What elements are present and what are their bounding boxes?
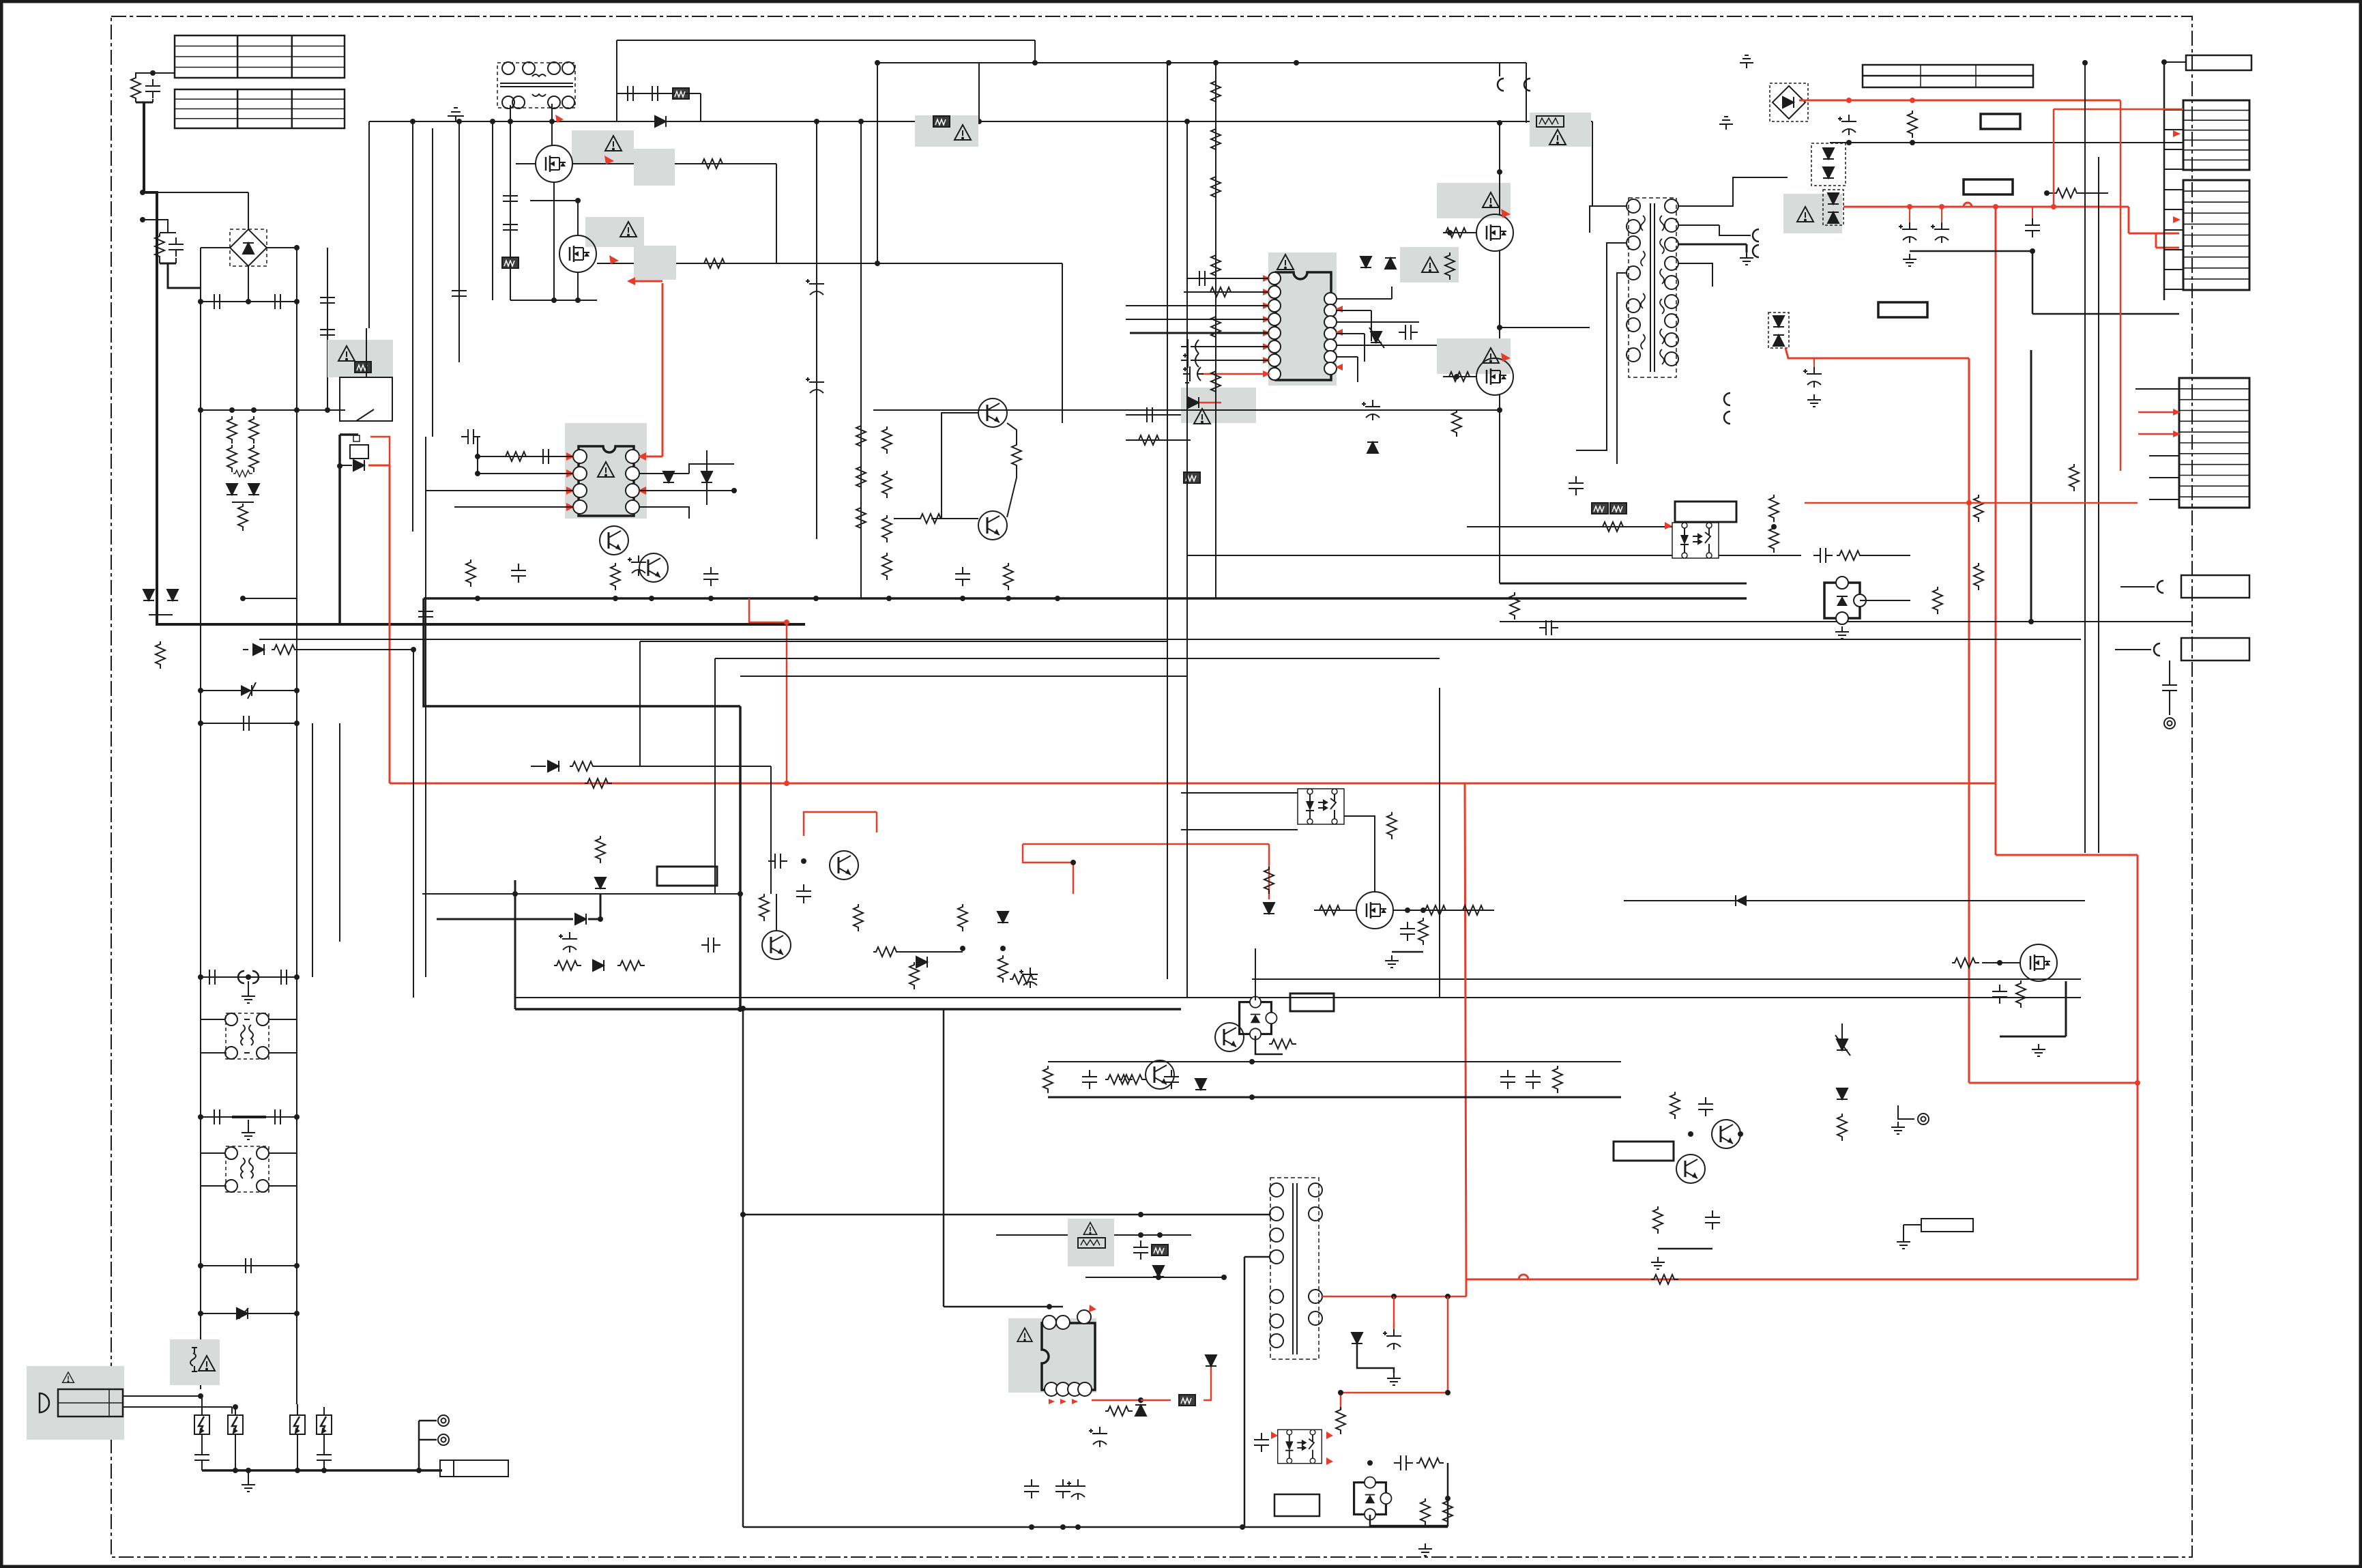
opto PC6001 — [1278, 1429, 1322, 1463]
aux fet red — [1023, 843, 1269, 845]
IC3 warnbox res — [1068, 1219, 1114, 1266]
MOSFET Q6601 — [1476, 214, 1513, 251]
feedback divider ladder — [860, 409, 862, 598]
ic3 small res diode — [1091, 1400, 1092, 1406]
T6001 sec red — [1322, 1296, 1466, 1298]
dual diode D6606 — [1768, 313, 1789, 348]
q3 link line — [422, 893, 740, 895]
standby transformer T6001 — [1270, 1178, 1319, 1359]
relay red stub — [370, 437, 390, 465]
aux bridge gnd caps — [1740, 55, 1753, 68]
warnbox Q6602 — [1437, 338, 1511, 374]
X-cap row — [201, 301, 297, 302]
IC1 red gate link — [635, 280, 662, 282]
sec ground buses — [1252, 978, 2081, 980]
red feedback tap — [749, 598, 787, 783]
main transformer T6601 — [1629, 198, 1676, 377]
bulk rail 634 — [432, 128, 433, 437]
Q6601 drain — [1499, 123, 1500, 214]
relay RY6001 — [340, 377, 392, 421]
lower-left zeners — [231, 410, 233, 484]
IC1 left rail — [477, 437, 478, 474]
npn at snubber2 — [1146, 1060, 1174, 1089]
gate link vert — [776, 164, 777, 263]
aux red tall — [1995, 207, 1997, 855]
long run E — [1592, 82, 1593, 121]
connector CN6093 — [2179, 378, 2249, 508]
bottom buses — [514, 998, 516, 1009]
connector CN6090 — [2183, 100, 2249, 170]
IC2 pins — [1268, 272, 1281, 285]
bulk rail 722 — [492, 121, 493, 300]
mid npn cluster — [1614, 1142, 1674, 1161]
bulk cap rail 1197 — [816, 121, 817, 539]
inlet wires — [123, 1395, 201, 1397]
sec snubber row — [1048, 1061, 1621, 1062]
Q6601 gate path — [1443, 232, 1476, 233]
gate zeners — [1360, 257, 1371, 267]
IC3 body — [1042, 1323, 1095, 1390]
opto out wires — [1313, 1393, 1315, 1432]
primary bus 2 — [424, 598, 740, 706]
note table 1 / table 2 — [175, 35, 345, 78]
Q6601 source — [1499, 251, 1500, 382]
bulk rail 673 — [458, 121, 460, 362]
Q6201 drain stub — [551, 121, 553, 145]
v out filter — [1899, 222, 1917, 243]
spark gap row — [194, 1415, 209, 1434]
gate resistor Q6202 — [597, 263, 1062, 264]
center npn A — [762, 931, 791, 959]
q3 diode chain — [437, 918, 573, 920]
bus res caps — [511, 564, 526, 583]
IC2 highlight — [1268, 252, 1337, 386]
reg npn1 — [830, 851, 858, 880]
right res v — [2069, 464, 2079, 491]
br fet — [2020, 944, 2057, 981]
across-line capacitor — [201, 1265, 297, 1266]
IC2 left wiring — [1187, 278, 1268, 279]
ic3 diode — [1153, 1266, 1164, 1277]
dual diode D6604 — [1811, 143, 1846, 186]
bulk rail 1262 — [860, 121, 862, 532]
aux fet — [1356, 892, 1393, 929]
IC2 left extra — [1126, 414, 1191, 416]
ic2 diode low — [1367, 442, 1378, 453]
IC1 bjt — [600, 526, 628, 555]
sec top wires — [1678, 177, 1788, 206]
label box bl — [1274, 1494, 1319, 1516]
aux gnd bus — [1830, 142, 2183, 143]
thick rail from pair A — [144, 102, 805, 624]
center vertical B — [1186, 121, 1188, 998]
center cluster res — [958, 904, 967, 931]
degauss thermistor highlight — [327, 340, 393, 377]
lower-left zener2 — [201, 690, 297, 691]
Q6602 source — [1499, 395, 1500, 583]
standby red out — [1466, 1279, 1468, 1296]
doubler caps — [327, 248, 328, 410]
br ring lug — [1898, 1105, 1914, 1119]
left mid columns — [425, 437, 426, 977]
resistor-capacitor pair A — [136, 73, 153, 76]
D6604 wiring — [1828, 123, 1829, 149]
T6001 sec diode — [1352, 1333, 1362, 1344]
IC1 zener pair — [663, 471, 674, 482]
ring terminals — [419, 1420, 437, 1422]
sec fuse pair2 — [1719, 382, 1720, 396]
IC3 wiring top — [944, 1306, 1063, 1308]
right verticals — [2084, 63, 2086, 853]
warnbox D6605 — [1783, 194, 1842, 233]
protective earth bus — [202, 1469, 442, 1472]
opto PC6002 — [1672, 523, 1719, 558]
br zeners — [1841, 1023, 1843, 1039]
bus2 to ic3 — [515, 1008, 1181, 1011]
warn box mid — [585, 217, 644, 247]
red conn wires — [2053, 109, 2055, 207]
q3 bold vert — [514, 880, 516, 1009]
IC1 left wiring — [478, 456, 573, 457]
line filter transformer LF2 — [226, 1146, 269, 1192]
hb left rail — [510, 105, 511, 300]
zener mid — [1371, 332, 1382, 343]
IC1 top cap — [477, 423, 478, 434]
node mid wire — [1500, 327, 1590, 328]
D6606 wiring — [1778, 259, 1779, 313]
relay feed diode — [340, 465, 352, 466]
warn box Q6201 — [572, 130, 634, 164]
ic3 feed vert — [1191, 1235, 1255, 1341]
trunk warn resistor 1 — [915, 115, 978, 147]
bleeder chain — [1215, 63, 1216, 598]
IC2 right wiring — [1337, 298, 1392, 300]
reg caps — [796, 884, 811, 903]
br line diode — [1624, 900, 2085, 901]
driver npn pair — [978, 398, 1007, 427]
IC1 bjt2 — [639, 553, 668, 582]
staircase right — [1439, 658, 1440, 688]
q3 col 606 — [413, 650, 414, 998]
aux top table — [1863, 65, 2033, 87]
bulk rail 605 — [412, 121, 413, 532]
snubber caps hb — [1575, 450, 1577, 478]
trunk diode — [655, 116, 666, 127]
line filter transformer LF1 — [226, 1013, 269, 1059]
label box r1 — [1675, 502, 1736, 522]
opto feed res — [1467, 526, 1672, 527]
lower-left feeder — [201, 409, 345, 411]
center red jog — [1023, 844, 1073, 894]
opto out — [1719, 555, 1801, 556]
IC3 highlight — [1008, 1318, 1096, 1393]
connector CN6091 — [2183, 180, 2249, 290]
hv upper loop — [617, 40, 1035, 41]
center npn B — [761, 952, 763, 998]
D6606 red out — [1785, 348, 1969, 358]
gate resistor Q6201 — [516, 163, 536, 164]
aux 12v label box — [1964, 179, 2013, 194]
line filter cap row 1 — [201, 976, 297, 978]
chassis lug — [440, 1460, 508, 1477]
aux table wire — [1830, 81, 1863, 143]
hv feed left leg — [978, 63, 980, 121]
IC1 highlight — [565, 423, 647, 519]
IC2 red elbow — [1201, 374, 1216, 392]
mid diode res — [531, 766, 546, 767]
connector CN6002 — [2186, 55, 2251, 70]
line filter cap row 2 — [201, 1116, 297, 1118]
resistor-capacitor pair B — [160, 232, 176, 233]
IC1 warn — [598, 462, 614, 477]
warnbox Q6601 — [1437, 183, 1511, 218]
bridge rectifier D6501 — [230, 229, 267, 266]
aux red feed — [1799, 100, 2120, 102]
source return line — [873, 409, 1500, 411]
fuse F6001 — [170, 1339, 220, 1385]
red center risers — [1464, 696, 1466, 784]
MOSFET Q6602 — [1476, 358, 1513, 395]
snub rc mid — [1514, 583, 1515, 628]
start resistor chain — [551, 300, 553, 434]
degauss diodes — [143, 590, 154, 600]
left rail A — [200, 248, 201, 1389]
IC2 body — [1276, 272, 1331, 380]
pfc opto — [1298, 789, 1344, 824]
mid divider line — [1500, 621, 2192, 622]
IC3 wiring bottom — [1032, 1396, 1051, 1479]
snubber RC — [617, 93, 701, 94]
mid divider line2 — [259, 639, 2081, 640]
long run A — [345, 104, 369, 121]
mid right res — [2054, 188, 2081, 198]
cn cap — [2162, 678, 2177, 697]
connector CN6095 — [2181, 638, 2249, 660]
red conn marks — [2173, 130, 2181, 137]
trunk warn resistor 2 — [1530, 113, 1591, 147]
main top trunk — [369, 121, 1592, 122]
warn diode left — [1181, 388, 1256, 423]
pfc tl431 — [1240, 997, 1277, 1040]
connector CN6094 — [2181, 575, 2249, 598]
reg red jog — [804, 812, 877, 836]
center vertical A — [1167, 63, 1168, 979]
IC1 pins — [573, 450, 587, 463]
TL431 U6002 — [1824, 577, 1866, 624]
ic3 vcc line — [1114, 1234, 1191, 1236]
aux cap res — [1838, 115, 1856, 135]
npn at snubber — [1215, 1023, 1244, 1051]
ic3 mid caps — [1089, 1427, 1107, 1447]
IC2 warn — [1277, 255, 1294, 270]
MOSFET Q6201 — [536, 145, 572, 182]
chassis gnd top — [448, 108, 464, 121]
lower-left diode res — [243, 649, 248, 650]
IC3 pins — [1043, 1316, 1056, 1329]
lower-left cap row — [201, 723, 297, 724]
IC3 red out — [1092, 1399, 1141, 1402]
red right link — [2137, 855, 2139, 1279]
q3 col 478 — [312, 723, 313, 977]
hv feed top — [877, 62, 1526, 63]
center vertical C — [1439, 688, 1440, 998]
aux label box — [1981, 114, 2020, 129]
aux bridge D6301 — [1770, 83, 1808, 121]
primary ground bus — [424, 597, 1747, 600]
q4 top lines — [1181, 829, 1298, 830]
ic3 area caps — [1133, 1240, 1148, 1260]
right resistors col — [1769, 495, 1779, 522]
D6605 red out — [1843, 206, 2129, 208]
q3 col 498 — [339, 723, 340, 942]
Q6601 gate pullres — [1445, 252, 1455, 280]
hv drop 1435 — [978, 63, 980, 121]
reg out diode — [887, 961, 914, 963]
hb bottom bus — [510, 300, 597, 301]
Q6602 gate res — [1452, 409, 1461, 437]
connector stub wires — [2164, 109, 2183, 111]
ladder D wires — [2135, 388, 2179, 390]
standby fb red — [1341, 1296, 1448, 1393]
warnbox gate — [1400, 247, 1459, 282]
IC1 right wiring — [639, 456, 662, 458]
q3 bold L — [515, 966, 540, 998]
connector trunk — [2163, 62, 2166, 300]
sec return vertical — [2030, 350, 2032, 622]
driver link — [978, 121, 980, 379]
cn mid wires — [2114, 597, 2116, 650]
T6601 primary wiring — [1590, 206, 1627, 233]
AC inlet — [27, 1366, 124, 1440]
IC1 body — [579, 446, 634, 516]
TL431 U6001 — [1354, 1477, 1392, 1520]
standby transformer T6101 — [497, 63, 575, 108]
MOSFET Q6202 — [559, 235, 596, 272]
T6001 primary wires — [743, 1214, 1270, 1216]
left rail B — [296, 248, 297, 1404]
ic2 elec cap — [1362, 400, 1380, 420]
dual diode D6605 — [1823, 190, 1843, 225]
red standby feed — [368, 465, 390, 783]
label box q3 — [657, 867, 717, 886]
bus dots — [475, 596, 480, 601]
red mark trunk — [555, 115, 564, 123]
hv drop 2334 — [1592, 121, 1593, 206]
nested stair lines — [640, 641, 1167, 642]
D6606 cap — [1803, 367, 1822, 388]
opto in2 — [1187, 555, 1672, 556]
surge diode — [201, 1313, 297, 1314]
trunk left drop — [368, 121, 370, 328]
br red horiz — [1969, 1082, 2138, 1084]
Q6602 gate path — [1443, 376, 1476, 377]
sec fuse pair — [1753, 229, 1759, 242]
reg red feed — [1805, 502, 2138, 504]
